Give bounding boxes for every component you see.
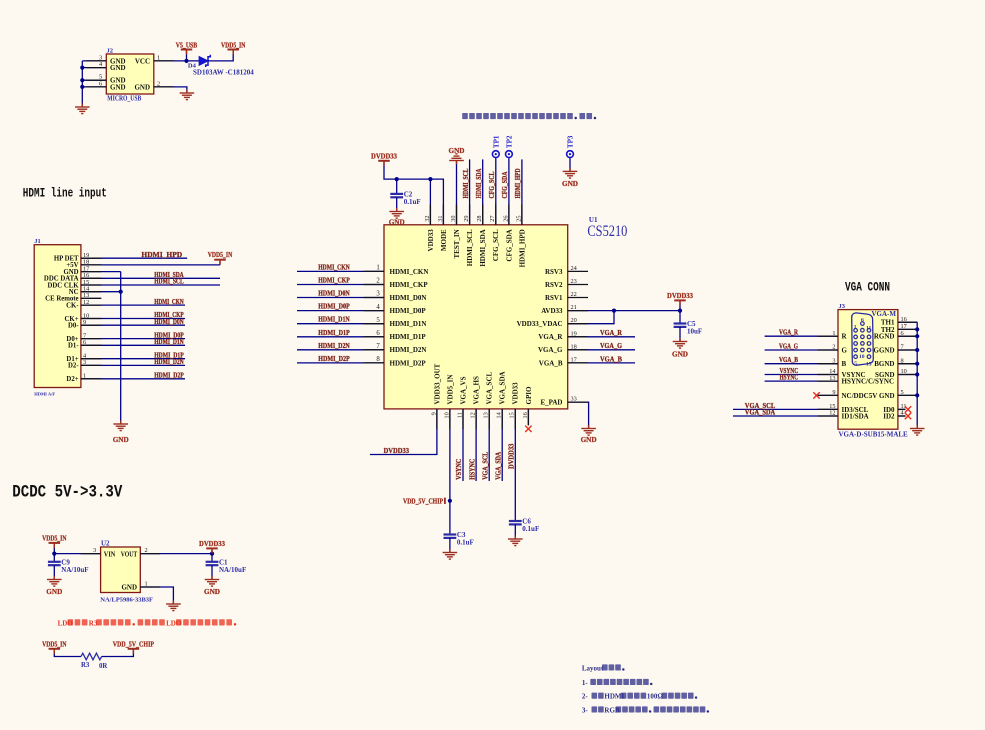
svg-text:0.1uF: 0.1uF <box>404 198 421 206</box>
svg-text:BGND: BGND <box>874 360 894 368</box>
svg-text:VDD5_IN: VDD5_IN <box>221 40 246 49</box>
svg-text:TEST_IN: TEST_IN <box>453 229 461 258</box>
wire VGA_R to J3 <box>765 335 838 337</box>
junction <box>80 78 84 82</box>
svg-text:SGND: SGND <box>875 371 894 379</box>
power port VDD5_IN (R3) <box>42 640 67 654</box>
wire U1 HDMI_CKP <box>297 284 384 286</box>
svg-text:DVDD33: DVDD33 <box>371 152 397 161</box>
svg-text:VGA_B: VGA_B <box>600 354 622 363</box>
junction V5_USB <box>184 59 188 63</box>
test point TP2 <box>506 135 514 157</box>
pin U1 HDMI_D1P <box>364 336 384 338</box>
J3 right pin names <box>874 319 895 421</box>
U1 bottom pin numbers <box>430 411 529 418</box>
wire pin10 VDD_5V_CHIP <box>449 409 451 534</box>
wire pin16 stub <box>527 409 529 425</box>
wire to C9 <box>53 554 55 562</box>
wire TP3 to gnd <box>569 158 571 172</box>
svg-text:GND: GND <box>562 180 578 188</box>
pin U1 HDMI_CKN <box>364 270 384 272</box>
pin J3 ID0 <box>898 408 906 410</box>
svg-text:HDMI line input: HDMI line input <box>23 186 107 200</box>
pin U1 top <box>469 205 471 225</box>
svg-text:VGA_VS: VGA_VS <box>459 376 467 404</box>
wire J1 pin19 <box>81 257 187 259</box>
svg-text:MICRO_USB: MICRO_USB <box>107 94 141 103</box>
pin J1 4 <box>81 358 101 360</box>
svg-text:RSV1: RSV1 <box>545 294 563 302</box>
svg-text:GND: GND <box>121 584 137 592</box>
svg-text:G: G <box>842 347 848 355</box>
junction J1 pin14 <box>119 290 123 294</box>
op-amp U1 CS5210 body <box>384 225 568 409</box>
svg-text:VGA_R: VGA_R <box>779 328 798 337</box>
pin AVD33 <box>568 310 588 312</box>
svg-text:D0-: D0- <box>68 323 79 330</box>
pin J3 5 <box>898 394 917 396</box>
pin U2 GND <box>140 586 160 588</box>
pin J1 14 <box>81 291 101 293</box>
note 1 (chinese) <box>582 679 653 687</box>
pin J3 17 <box>898 328 917 330</box>
J3 left pin numbers <box>829 330 836 417</box>
svg-text:RSV3: RSV3 <box>545 268 563 276</box>
svg-text:NC/DDC5V: NC/DDC5V <box>842 392 878 400</box>
svg-text:DVDD33: DVDD33 <box>667 291 693 300</box>
capacitor C5 <box>674 320 703 335</box>
pin U1 HDMI_CKP <box>364 284 384 286</box>
pin U1 top <box>521 205 523 225</box>
svg-text:R3: R3 <box>81 662 90 669</box>
svg-text:HDMI_D0P: HDMI_D0P <box>318 302 350 311</box>
svg-text:HDMI_D1P: HDMI_D1P <box>390 333 427 341</box>
svg-text:HDMI_HPD: HDMI_HPD <box>141 250 182 259</box>
svg-text:V5_USB: V5_USB <box>176 40 197 49</box>
svg-text:E_PAD: E_PAD <box>540 399 562 407</box>
svg-text:HSYNC: HSYNC <box>780 373 799 382</box>
svg-text:VGA_SCL: VGA_SCL <box>480 452 489 480</box>
svg-text:GND: GND <box>672 351 688 359</box>
U1 top pin numbers <box>424 216 523 222</box>
connector J1 HDMI body <box>34 245 81 388</box>
wire J3 gnd bus <box>916 322 918 428</box>
wire J1 pin17 <box>81 271 121 273</box>
svg-text:HDMI_SCL: HDMI_SCL <box>461 169 470 199</box>
svg-text:2-: 2- <box>582 693 589 701</box>
wire J2 pin2 gnd <box>154 87 187 93</box>
power port DVDD33 (right) <box>667 291 693 305</box>
pin J3 8 <box>898 363 917 365</box>
svg-text:0.1uF: 0.1uF <box>522 525 539 533</box>
no-connect X (ID0) <box>905 406 911 412</box>
svg-text:DVDD33: DVDD33 <box>384 446 410 455</box>
svg-text:10: 10 <box>859 354 865 360</box>
svg-text:HDMI_D0N: HDMI_D0N <box>318 289 350 298</box>
svg-text:CFG_SCL: CFG_SCL <box>487 172 496 199</box>
pin U1 bottom <box>501 409 503 429</box>
pin J3 10 <box>898 374 917 376</box>
wire J1 pin16 <box>81 277 220 279</box>
svg-text:VDD5_IN: VDD5_IN <box>42 640 67 649</box>
wire VSYNC to J3 <box>765 374 838 376</box>
wire U1 VGA_B <box>568 362 635 364</box>
resistor R3 <box>81 653 107 670</box>
wire VCC to diode <box>154 60 199 62</box>
wire J3 GGND <box>898 349 917 351</box>
svg-text:GPIO: GPIO <box>525 386 533 404</box>
wire VGA_SCL to J3 <box>733 408 838 410</box>
wire to C5 <box>679 311 681 323</box>
svg-text:HDMI_D2P: HDMI_D2P <box>154 371 184 380</box>
wire J1 pin1 <box>81 378 185 380</box>
junction C9 <box>52 552 56 556</box>
wire E_PAD to gnd <box>568 402 589 428</box>
svg-text:ID1/SDA: ID1/SDA <box>842 413 869 421</box>
svg-text:6: 6 <box>376 330 380 337</box>
pin J2 VCC <box>154 60 174 62</box>
wire J3 ID2 stub <box>898 415 906 417</box>
pin RSV2 stub <box>568 284 588 286</box>
wire VOUT to DVDD33 <box>140 553 212 555</box>
ground (C6) <box>508 535 523 545</box>
pin J1 12 <box>81 304 101 306</box>
svg-text:VIN: VIN <box>104 550 116 558</box>
ground (C5) <box>673 338 688 348</box>
junction C2 <box>395 177 399 181</box>
wire to C2 <box>396 179 398 193</box>
note 3 (chinese) <box>582 706 709 714</box>
svg-text:VGA-M: VGA-M <box>872 310 897 318</box>
pin J3 13 <box>818 380 838 382</box>
wire HSYNC to J3 <box>765 380 838 382</box>
pin RSV3 stub <box>568 270 588 272</box>
svg-text:MODE: MODE <box>440 229 448 251</box>
svg-text:15: 15 <box>866 362 872 368</box>
pin U1 HDMI_D0P <box>364 310 384 312</box>
svg-text:HDMI_D2N: HDMI_D2N <box>154 357 184 366</box>
wire HSYNC down <box>475 409 477 481</box>
svg-text:VDD33: VDD33 <box>427 229 435 252</box>
svg-text:AVD33: AVD33 <box>541 307 563 315</box>
wire HDMI_HPD up <box>521 159 523 224</box>
svg-text:GND: GND <box>581 436 597 444</box>
svg-text:HDMI_D2P: HDMI_D2P <box>390 359 427 367</box>
wire J1 pin15 <box>81 284 220 286</box>
J1 pin numbers <box>83 252 90 380</box>
wire C5 to gnd <box>679 327 681 342</box>
test point TP1 <box>492 135 500 157</box>
svg-text:VGA-D-SUB15-MALE: VGA-D-SUB15-MALE <box>839 431 909 439</box>
U1 bottom pin names <box>433 363 533 404</box>
regulator U2 body <box>101 547 141 593</box>
svg-text:10uF: 10uF <box>687 328 702 336</box>
svg-text:ID2: ID2 <box>883 413 895 421</box>
wire J1 gnd vertical <box>120 272 122 424</box>
svg-text:U2: U2 <box>101 539 110 547</box>
wire CFG_SCL to TP1 <box>495 158 497 225</box>
ground (TP3) <box>563 168 578 178</box>
wire J3 ID0 stub <box>898 408 906 410</box>
wire CFG_SDA to TP2 <box>508 158 510 225</box>
wire J3 TH1 <box>898 321 917 323</box>
wire J3 GND <box>898 394 917 396</box>
power port VDD5_IN (DCDC) <box>42 534 67 548</box>
svg-text:3: 3 <box>376 291 380 298</box>
svg-text:GND: GND <box>449 147 465 155</box>
wire J2 pin4 <box>82 67 106 69</box>
svg-text:HDMI_D2N: HDMI_D2N <box>318 341 350 350</box>
power port VDD5_IN (J1) <box>208 250 233 265</box>
pin J2 GND <box>154 86 174 88</box>
svg-text:RSV2: RSV2 <box>545 281 563 289</box>
wire U1 HDMI_D1N <box>297 323 384 325</box>
svg-text:8: 8 <box>376 356 380 363</box>
wire C1 to gnd <box>211 565 213 579</box>
J2 pin names <box>110 57 150 91</box>
svg-text:GND: GND <box>204 588 220 596</box>
svg-text:GND: GND <box>110 83 126 91</box>
U1 top pin names <box>427 229 527 268</box>
svg-text:VGA_SCL: VGA_SCL <box>486 371 494 404</box>
pin J3 12 <box>818 415 838 417</box>
pin J1 16 <box>81 277 101 279</box>
wire J1 pin10 <box>81 318 185 320</box>
wire C6 to gnd <box>514 524 516 539</box>
wire DVDD33 to MODE <box>384 162 443 225</box>
svg-text:1: 1 <box>376 265 379 272</box>
pin U1 top <box>508 205 510 225</box>
test point TP3 <box>567 135 575 157</box>
pin U1 bottom <box>462 409 464 429</box>
pin J3 9 <box>818 394 838 396</box>
svg-text:J3: J3 <box>839 303 846 310</box>
J3 right pin numbers <box>901 316 907 417</box>
pin U1 top <box>482 205 484 225</box>
svg-text:HDMI_D0P: HDMI_D0P <box>390 307 427 315</box>
svg-text:0R: 0R <box>99 663 107 670</box>
wire HDMI_SCL up <box>469 159 471 224</box>
wire U1 HDMI_D0N <box>297 297 384 299</box>
svg-text:VGA_G: VGA_G <box>600 341 622 350</box>
wire pin32 VDD33 <box>429 179 431 225</box>
svg-text:VGA_B: VGA_B <box>539 359 563 367</box>
wire V5_USB stub <box>186 51 188 61</box>
junction J3 gnd bus <box>915 334 919 338</box>
svg-text:VDD33_VDAC: VDD33_VDAC <box>517 320 563 328</box>
wire J1 pin12 <box>81 304 185 306</box>
wire U1 HDMI_D1P <box>297 336 384 338</box>
power port DVDD33 (top) <box>371 152 397 166</box>
note LDO (chinese red) <box>58 619 237 627</box>
svg-text:HDMI_D1N: HDMI_D1N <box>154 337 184 346</box>
svg-text:TP2: TP2 <box>506 135 514 148</box>
wire R3 to VDD_5V_CHIP <box>102 649 134 657</box>
wire J3 RGND <box>898 335 917 337</box>
note Layout (chinese) <box>582 664 625 672</box>
ground (USB shell) <box>75 103 90 113</box>
wire J1 pin18 <box>81 264 220 266</box>
J3 left pin names <box>842 333 895 421</box>
pin J1 17 <box>81 271 101 273</box>
J1 pin names <box>44 256 79 384</box>
wire U1 HDMI_D0P <box>297 310 384 312</box>
svg-text:VDD33_OUT: VDD33_OUT <box>433 363 441 404</box>
svg-text:TP1: TP1 <box>493 135 501 148</box>
wire U1 VGA_G <box>568 349 635 351</box>
svg-text:HDMI_D2N: HDMI_D2N <box>390 346 427 354</box>
svg-text:GND: GND <box>113 436 129 444</box>
pin U1 bottom <box>488 409 490 429</box>
pin J1 10 <box>81 318 101 320</box>
svg-text:HDMI_HPD: HDMI_HPD <box>513 168 522 198</box>
wire diode to VDD5_IN <box>208 51 233 61</box>
svg-text:2: 2 <box>145 547 148 554</box>
pin U1 bottom <box>436 409 438 429</box>
svg-text:HDMI A/F: HDMI A/F <box>34 391 55 396</box>
wire J2 pin6 <box>82 86 106 88</box>
U1 left pin names <box>390 268 429 368</box>
svg-text:6: 6 <box>861 317 864 323</box>
pin VDD33_VDAC <box>568 323 588 325</box>
pin U1 HDMI_D2P <box>364 362 384 364</box>
pin J1 1 <box>81 378 101 380</box>
pin U1 top <box>495 205 497 225</box>
svg-text:VGA_SDA: VGA_SDA <box>493 451 502 479</box>
wire J1 pin3 <box>81 364 185 366</box>
svg-text:D2-: D2- <box>68 363 79 370</box>
junction J3 gnd bus <box>915 327 919 331</box>
svg-text:NA/LP5986-33B3F: NA/LP5986-33B3F <box>100 597 153 604</box>
pin J3 2 <box>818 349 838 351</box>
pin J1 18 <box>81 264 101 266</box>
no-connect X (GPIO) <box>525 426 531 432</box>
svg-text:GGND: GGND <box>874 347 895 355</box>
no-connect X (J3 pin9) <box>813 392 819 398</box>
capacitor C6 <box>509 518 539 533</box>
wire HDMI_SDA up <box>482 159 484 224</box>
wire J2 pin3 <box>82 60 106 62</box>
capacitor C2 <box>390 191 420 206</box>
pin U1 VGA_G <box>568 349 588 351</box>
svg-text:GND: GND <box>389 218 405 226</box>
svg-text:CFG_SCL: CFG_SCL <box>492 229 500 261</box>
svg-text:GND: GND <box>879 392 895 400</box>
svg-text:HDMI_D1P: HDMI_D1P <box>318 328 350 337</box>
svg-text:7: 7 <box>376 343 380 350</box>
wire pin15 DVDD33 <box>514 409 516 521</box>
svg-text:HSYNC: HSYNC <box>467 459 476 480</box>
svg-text:1-: 1- <box>582 679 589 687</box>
svg-text:VSYNC: VSYNC <box>454 459 463 480</box>
pin U1 GPIO <box>527 409 529 425</box>
wire VGA_SDA to J3 <box>733 415 838 417</box>
pin J3 1 <box>818 335 838 337</box>
pin J3 16 <box>898 321 917 323</box>
junction AVD33 <box>612 309 616 313</box>
junction pin32 <box>428 177 432 181</box>
ground (J2 pin2) <box>180 89 195 99</box>
wire AVD33 to DVDD33 <box>568 310 680 312</box>
svg-text:VDD_5V_CHIP: VDD_5V_CHIP <box>113 640 155 649</box>
svg-text:HDMI_CKN: HDMI_CKN <box>390 268 429 276</box>
pin J1 7 <box>81 338 101 340</box>
ground (C2) <box>389 208 404 218</box>
junction <box>80 66 84 70</box>
svg-text:D1-: D1- <box>68 343 79 350</box>
svg-text:J1: J1 <box>34 238 41 245</box>
pin U1 top <box>429 205 431 225</box>
svg-text:5: 5 <box>376 317 380 324</box>
pin U1 top <box>442 205 444 225</box>
wire U1 VGA_R <box>568 336 635 338</box>
note test points (chinese) <box>462 113 596 119</box>
wire J2 gnd bus <box>81 61 83 107</box>
pin J2 left <box>86 60 106 62</box>
junction J3 gnd bus <box>915 393 919 397</box>
wire J1 pin9 <box>81 324 185 326</box>
junction J3 gnd bus <box>915 362 919 366</box>
svg-text:GND: GND <box>134 83 150 91</box>
junction DVDD33/C5 <box>678 309 682 313</box>
svg-text:HDMI_D0N: HDMI_D0N <box>154 317 184 326</box>
J2 pin numbers <box>99 54 160 87</box>
svg-text:CS5210: CS5210 <box>587 223 627 240</box>
pin J1 9 <box>81 324 101 326</box>
svg-text:NA/10uF: NA/10uF <box>61 566 88 574</box>
pin J3 3 <box>818 363 838 365</box>
wire DVDD33 stub right <box>679 301 681 310</box>
wire VDD33_VDAC <box>568 311 614 324</box>
svg-text:HDMI_D0N: HDMI_D0N <box>390 294 427 302</box>
svg-text:CFG_SDA: CFG_SDA <box>505 229 513 261</box>
wire U1 HDMI_D2N <box>297 349 384 351</box>
pin U1 top <box>456 205 458 225</box>
power port VDD5_IN <box>221 40 246 54</box>
pin J3 14 <box>818 374 838 376</box>
power port V5_USB <box>176 40 197 54</box>
svg-text:J2: J2 <box>107 47 114 54</box>
wire J1 pin6 <box>81 344 185 346</box>
svg-text:VGA CONN: VGA CONN <box>845 280 890 295</box>
svg-text:GND: GND <box>46 588 62 596</box>
U2 pin names <box>104 550 138 591</box>
svg-text:11: 11 <box>866 325 871 331</box>
svg-text:VGA_B: VGA_B <box>779 355 798 364</box>
U1 left pin numbers <box>376 265 380 364</box>
svg-text:HDMI_D1N: HDMI_D1N <box>318 315 350 324</box>
svg-text:HDMI_CKN: HDMI_CKN <box>154 297 184 306</box>
U2 pin numbers <box>93 547 148 587</box>
svg-text:HDMI_CKP: HDMI_CKP <box>390 281 429 289</box>
wire J3 pin9 stub <box>819 394 838 396</box>
wire U1 HDMI_D2P <box>297 362 384 364</box>
svg-text:HDMI_SDA: HDMI_SDA <box>474 168 483 198</box>
U1 right pin names <box>517 268 564 407</box>
wire J3 SGND <box>898 374 917 376</box>
pin U1 bottom <box>449 409 451 429</box>
svg-text:VDD5_IN: VDD5_IN <box>42 534 67 543</box>
svg-text:VDD33: VDD33 <box>512 382 520 405</box>
pin J1 13 <box>81 297 101 299</box>
svg-text:VDD5_IN: VDD5_IN <box>208 250 233 259</box>
wire U1 HDMI_CKN <box>297 270 384 272</box>
svg-text:NA/10uF: NA/10uF <box>219 566 246 574</box>
pin J2 left <box>86 79 106 81</box>
svg-text:VDD5_IN: VDD5_IN <box>446 375 454 405</box>
svg-text:VGA_HS: VGA_HS <box>473 376 481 405</box>
svg-text:HDMI_CKP: HDMI_CKP <box>318 276 350 285</box>
